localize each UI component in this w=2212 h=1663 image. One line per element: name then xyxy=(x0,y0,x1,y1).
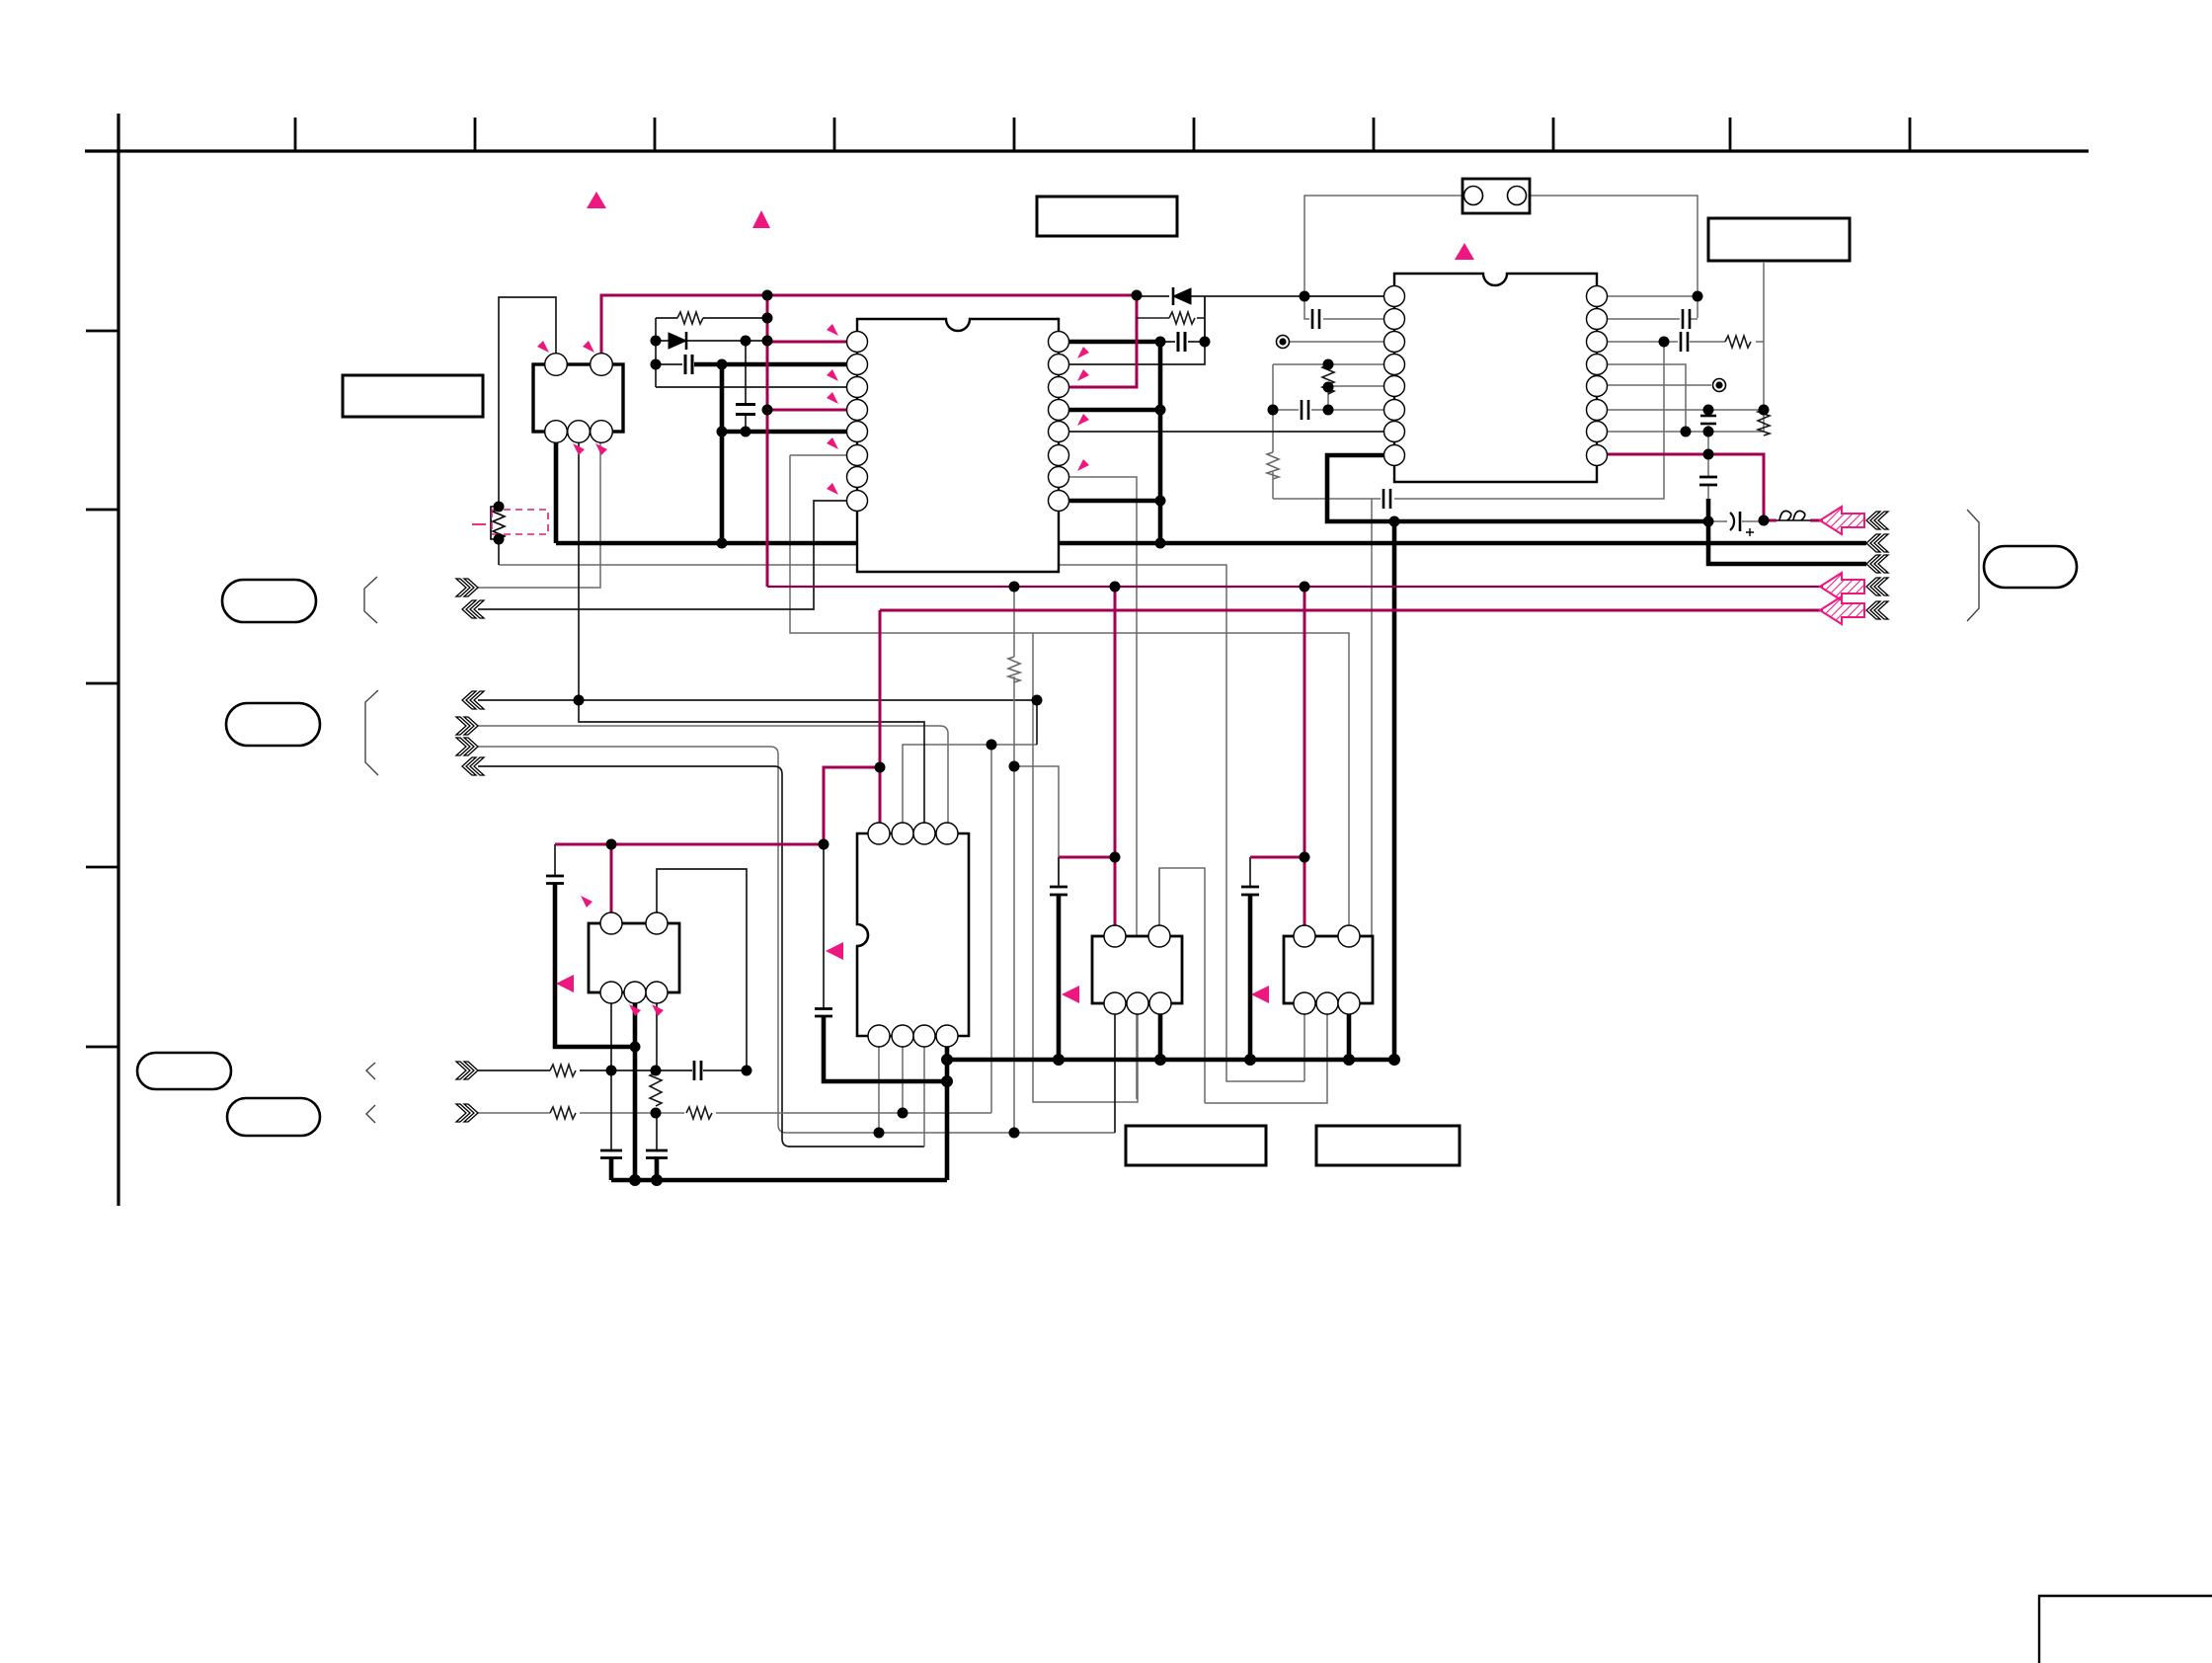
label box (blank) top right xyxy=(1708,218,1850,261)
wire x834 cap to y1095 link xyxy=(824,1016,947,1081)
wire row2 resistor input line xyxy=(478,1112,550,1114)
wire IC201 R5 long line to IC301 L7 xyxy=(1068,431,1384,433)
wire IC301 R5 to test point xyxy=(1607,384,1711,386)
junction node (731,550) xyxy=(717,538,728,549)
wire IC601 B1 drop xyxy=(1114,1014,1116,1133)
wire long loop y=572 from IC1 resistor leg to IC701 net xyxy=(499,565,1327,1103)
capacitor C210 (y346 horizontal) xyxy=(1178,332,1185,352)
title block corner box bottom-right xyxy=(2039,1596,2212,1663)
connector pill right side xyxy=(1984,546,2077,588)
wire IC301 R7 line xyxy=(1607,431,1764,433)
wire IC501 B4 rail xyxy=(945,1047,950,1180)
wire IC301 R4 down link xyxy=(1607,364,1686,432)
junction node (1129,594) xyxy=(1110,582,1121,593)
junction node (1366,1073) xyxy=(1343,1054,1355,1066)
border frame: top horizontal rule xyxy=(85,149,2089,152)
wire IC201 L2 feed xyxy=(694,362,847,367)
wire chevron y617 to IC201 L8 xyxy=(478,501,847,609)
resistor R3 (row1) xyxy=(550,1065,576,1076)
junction node (1072,1073) xyxy=(1053,1054,1065,1066)
wire x1220 link xyxy=(1204,296,1206,342)
wire cap C510 lower to bus xyxy=(1057,895,1062,1060)
wire x1289 chain xyxy=(1272,364,1274,499)
junction node (1730,528) xyxy=(1703,516,1714,527)
capacitor C402 (x834) xyxy=(815,1009,832,1017)
wire bus2 bottom y1073 xyxy=(947,1058,1394,1063)
capacitor C211 (x1289 on R7 line? vertical on x1345) xyxy=(1302,400,1308,420)
resistor R4 (row2) xyxy=(550,1107,576,1119)
wire IC301 L2 cap feed xyxy=(1304,296,1384,319)
junction node (1412,1073) xyxy=(1388,1054,1400,1066)
wire resistor R316 vertical xyxy=(1763,412,1765,432)
wire IC301 R3 cap res chain xyxy=(1664,263,1764,410)
junction node (1345,369) xyxy=(1323,359,1334,370)
connector entry chevron (out) y617 xyxy=(462,600,484,618)
junction node (1786,527) xyxy=(1759,515,1770,526)
wedge IC201 L8 xyxy=(827,483,838,495)
connector entry chevron (in) y735 xyxy=(456,717,478,735)
wire magenta IC301 R8 output xyxy=(1607,454,1764,520)
wire row2 across xyxy=(580,1112,991,1114)
wire IC301 L5 feed xyxy=(1328,385,1384,387)
capacitor C311 (y323 horizontal left of IC301) xyxy=(1312,309,1319,329)
wire magenta stub IC601 cap xyxy=(1059,856,1115,859)
op-amp IC601 body xyxy=(1092,925,1182,1014)
junction node (643,1060) xyxy=(630,1042,641,1053)
magenta marker triangle left of IC401 xyxy=(556,975,574,992)
wire magenta y855 row xyxy=(555,843,824,846)
label box (blank) top middle xyxy=(1037,197,1177,236)
resistor R330 (x1345 vertical) xyxy=(1322,364,1334,394)
wire magenta-A resistor chain to cap C510 xyxy=(1014,587,1059,1133)
wire cap C410 leg to bus3 xyxy=(609,1157,614,1180)
junction node (1220,346) xyxy=(1200,337,1211,348)
op-amp IC701 body xyxy=(1284,925,1373,1014)
capacitor C710 (x1266) xyxy=(1241,887,1259,895)
connector exit chevron y527 xyxy=(1866,512,1888,529)
junction node (1786,415) xyxy=(1759,405,1770,416)
bracket right side xyxy=(1967,510,1979,621)
wire cap C317 chain xyxy=(1707,454,1709,499)
junction node (1730,437) xyxy=(1703,427,1714,437)
wire IC501 B1 drop xyxy=(878,1047,880,1133)
wire IC601 B2 drop xyxy=(1033,633,1138,1102)
wire magenta drop to IC201 R3 xyxy=(1068,295,1137,387)
junction node (1412,528) xyxy=(1389,516,1400,527)
wire IC701 B1 drop xyxy=(1303,1014,1305,1081)
wire bus GND y550 xyxy=(556,541,1866,546)
magenta marker triangle top left xyxy=(587,192,606,208)
wire IC301 L4 feed xyxy=(1273,363,1384,365)
junction node (755,437) xyxy=(741,427,751,437)
bracket small row2 xyxy=(366,1105,375,1123)
wedge IC401 B3 xyxy=(652,1004,664,1016)
op-amp IC401 body xyxy=(589,912,679,1003)
junction node (505,513) xyxy=(494,502,505,513)
inductor L1 coil xyxy=(1779,511,1805,520)
wire IC201 L6 stub xyxy=(790,454,847,456)
wire IC601 x1072 cap top xyxy=(1058,857,1060,886)
wire bracket resistor lower leg xyxy=(498,539,500,565)
wire IC201 R7 drop rail xyxy=(1068,477,1137,1099)
junction node (1719,300) xyxy=(1693,291,1703,302)
junction node (834,855) xyxy=(819,839,829,850)
wire IC1 T1 loop xyxy=(499,297,556,507)
wire x1412 drop rail xyxy=(1392,521,1397,1060)
wire IC301 L8 U-link xyxy=(1327,455,1708,521)
resistor R6 (x664 vertical) xyxy=(650,1072,662,1106)
test point TP2 bulls-eye xyxy=(1713,379,1726,392)
wire cap C316 vertical link xyxy=(1707,410,1709,454)
wire magenta IC201 L4 feed xyxy=(767,409,847,412)
junction node (1151,299) xyxy=(1132,290,1143,301)
wedge IC201 R2 xyxy=(1077,347,1089,358)
magenta marker triangle above IC301 xyxy=(1455,243,1474,260)
wire magenta to coil L1 xyxy=(1764,519,1823,522)
wire y505 loop cap C320 xyxy=(1273,342,1664,499)
wire resistor R330 vertical link xyxy=(1327,387,1329,410)
junction node (755,345) xyxy=(741,336,751,347)
junction node (1730,415) xyxy=(1703,405,1714,416)
resistor R1 (y322 horizontal) xyxy=(677,312,703,324)
wire IC601 T2 loop up xyxy=(1158,868,1160,936)
resistor R5 (row2 mid) xyxy=(686,1107,712,1119)
resistor R316 (x1786 vertical) xyxy=(1758,410,1770,436)
resistor R312 (y346 right) xyxy=(1725,336,1751,348)
junction node (1345,392) xyxy=(1323,382,1334,393)
connector entry chevron (out) y709 xyxy=(462,691,484,709)
wedge IC401 T1 xyxy=(581,896,592,908)
wire chevron in y=756 to IC501 B1 / IC601 B1 rail xyxy=(478,747,1115,1133)
junction node (619,1084) xyxy=(606,1066,617,1076)
wire connector CN2 left lead xyxy=(1304,196,1462,296)
capacitor C2 (x755 vertical) xyxy=(736,405,755,415)
junction node (1129,868) xyxy=(1110,852,1121,863)
junction node (777,345) xyxy=(762,336,773,347)
junction node (777,415) xyxy=(762,405,773,416)
wire IC401 B2 drop xyxy=(633,1003,638,1180)
wedge IC201 R7 xyxy=(1077,459,1089,471)
tick marks left edge xyxy=(86,331,118,1047)
wire resistor R210 row xyxy=(1137,317,1169,319)
wire IC301 L6 feed xyxy=(1273,409,1384,411)
resistor R331 (x1289 vertical) xyxy=(1267,452,1279,479)
connector pill CN? upper left xyxy=(222,580,316,622)
junction node (1289,415) xyxy=(1268,405,1279,416)
connector pill CN? lower left A xyxy=(137,1053,231,1089)
junction node (731,369) xyxy=(717,359,728,370)
junction node (1175,415) xyxy=(1155,405,1166,416)
connector entry chevron (in) y756 xyxy=(456,738,478,755)
wire magenta rail x777 xyxy=(766,295,769,587)
wedge IC201 L1 xyxy=(827,324,838,336)
capacitor C401 (x562) xyxy=(546,876,564,884)
wire test point TP1 to IC301 L3 xyxy=(1290,341,1384,343)
wire resistor R1 row y322 xyxy=(656,317,767,319)
junction node (664,369) xyxy=(651,359,662,370)
wire IC301 R6 line xyxy=(1607,409,1764,411)
wire IC701 B3 drop xyxy=(1347,1014,1352,1060)
junction node (1175,1073) xyxy=(1154,1054,1166,1066)
test point TP1 bulls-eye xyxy=(1277,336,1290,349)
wire x665 link xyxy=(655,318,657,387)
resistor R510 (x1027 vertical) xyxy=(1008,657,1020,682)
junction node (1175,550) xyxy=(1155,538,1166,549)
wire IC601 B3 drop xyxy=(1158,1014,1163,1060)
wire magenta drop IC701 T1 xyxy=(1303,587,1306,925)
junction node (1707,437) xyxy=(1681,427,1692,437)
capacitor C315 (y323 horizontal right) xyxy=(1683,309,1690,329)
wire x1730 output leg xyxy=(1708,499,1866,564)
junction node (664,345) xyxy=(651,336,662,347)
wire IC401 B1 drop chain xyxy=(610,1003,612,1149)
wire x562 cap chain xyxy=(554,844,556,875)
wire x834 chain below magenta xyxy=(823,844,825,1008)
wedge IC1 T1 xyxy=(537,341,549,353)
junction node (1027,776) xyxy=(1009,761,1020,772)
IC501 body (tall driver) xyxy=(857,823,969,1047)
wire magenta drop IC601 T1 xyxy=(1114,587,1117,925)
wire IC201 L5 feed xyxy=(722,430,847,435)
wire cap C315 to vertical xyxy=(1691,318,1698,320)
wire cap C1 left lead xyxy=(656,363,682,365)
junction node (1027,1147) xyxy=(1009,1128,1020,1139)
wire IC301 R1 to node xyxy=(1607,295,1698,297)
junction node (1266,1073) xyxy=(1244,1054,1256,1066)
magenta marker triangle left of IC601 xyxy=(1062,986,1079,1003)
wire x1220 drop to IC201 R2 xyxy=(1068,296,1205,364)
wire IC401 T2 loop to row1 xyxy=(657,869,747,1070)
wire IC701 B2 stub up xyxy=(1360,499,1372,1003)
wedge IC1 T2 xyxy=(583,341,594,353)
junction node (1321,300) xyxy=(1300,291,1310,302)
junction node (959,1095) xyxy=(941,1075,953,1087)
wire magenta B drop chain to IC501 T1 xyxy=(879,610,882,823)
connector pill CN? mid left xyxy=(226,703,320,746)
capacitor C320 (y505 horizontal) xyxy=(1383,489,1390,509)
wire magenta IC201 L1 feed xyxy=(767,341,847,344)
wire cap C710 lower to bus xyxy=(1248,895,1253,1060)
junction node (914,1127) xyxy=(898,1108,908,1119)
hatched arrow out 3 xyxy=(1820,596,1864,624)
wire diode D2 row y300 xyxy=(1137,295,1394,297)
junction node (1175,507) xyxy=(1155,496,1166,507)
wire row2 right leg up to y754 xyxy=(990,745,992,1113)
wire diode D1 row y345 xyxy=(656,340,767,342)
wire chevron y709 rail xyxy=(478,700,1037,745)
wedge IC201 L4 xyxy=(827,392,838,404)
bracket small row1 xyxy=(366,1063,375,1079)
junction node (1321,594) xyxy=(1300,582,1310,593)
junction node (643,1195) xyxy=(629,1174,641,1186)
junction node (1345,415) xyxy=(1323,405,1334,416)
junction node (756,1084) xyxy=(742,1066,752,1076)
wire IC301 L1 feed xyxy=(1304,295,1384,297)
wire bus3 y1195 xyxy=(611,1178,947,1183)
connector exit chevron y550 xyxy=(1866,534,1888,552)
bracket left of chevrons group 2 xyxy=(365,690,378,775)
junction node (1004,754) xyxy=(987,740,997,751)
capacitor C312 (y346 right) xyxy=(1681,332,1688,352)
junction node (1175,346) xyxy=(1155,337,1166,348)
tick marks top edge xyxy=(295,118,1910,151)
wedge IC401 B2 xyxy=(629,1004,641,1016)
wire IC501 B3 drop xyxy=(923,1047,925,1147)
junction node (959,1073) xyxy=(941,1054,953,1066)
connector CN2 (2-pin header top right) xyxy=(1462,179,1530,213)
wire IC201 R1 to cap node xyxy=(1068,340,1160,345)
junction node (1321,868) xyxy=(1300,852,1310,863)
label box (blank) near IC1 xyxy=(343,375,483,417)
wedge IC1 B2 xyxy=(573,443,585,455)
wire magenta stub IC701 cap xyxy=(1250,856,1304,859)
diode D2 (y300 pointing left) xyxy=(1173,287,1191,305)
junction node (665,1195) xyxy=(651,1174,663,1186)
wire IC1 B1 drop xyxy=(554,442,559,543)
wire magenta drop IC401 T1 xyxy=(610,844,613,912)
connector entry chevron (in) y595 xyxy=(456,579,478,596)
wire x1175 rail xyxy=(1158,342,1163,543)
connector exit chevron y618 xyxy=(1866,601,1888,619)
junction node (777,322) xyxy=(762,313,773,324)
diode D1 (y345 pointing right) xyxy=(669,332,690,350)
junction node (1685,346) xyxy=(1659,337,1670,348)
capacitor C411 (x665) xyxy=(646,1150,668,1158)
capacitor C510 (x1072) xyxy=(1050,887,1067,895)
wire magenta link to x834 xyxy=(824,767,880,844)
capacitor C3 (row1 horizontal) xyxy=(694,1061,701,1080)
wire IC701 x1266 cap top xyxy=(1249,857,1251,886)
IC201 body (central DSP) xyxy=(847,319,1069,572)
wire IC301 R3 to node xyxy=(1607,341,1664,343)
wire chevron in y=735 to IC501 T4 xyxy=(478,726,948,823)
wedge IC201 L3 xyxy=(827,369,838,381)
wire magenta top feed from IC1 T2 xyxy=(601,295,1137,355)
connector entry chevron (out) y776 xyxy=(462,757,484,775)
junction node (891,777) xyxy=(875,762,886,773)
connector entry chevron (in) y1084 xyxy=(456,1062,478,1079)
label box (blank) bottom left of pair xyxy=(1126,1126,1266,1165)
junction node (890,1147) xyxy=(874,1128,885,1139)
magenta marker triangle left of IC701 xyxy=(1251,986,1269,1003)
wire IC201 R4 stub xyxy=(1068,408,1160,413)
wire x731 rail xyxy=(720,364,725,543)
wedge IC1 B3 xyxy=(595,443,607,455)
capacitor C410 (x619) xyxy=(600,1150,622,1158)
wire IC201 L3 feed xyxy=(656,386,847,388)
junction node (731,437) xyxy=(717,427,728,437)
wire IC201 R8 stub xyxy=(1068,499,1160,504)
wire IC301 R2 to cap C315 xyxy=(1607,318,1680,320)
wedge IC201 R3 xyxy=(1077,369,1089,381)
wedge IC201 L6 xyxy=(827,437,838,449)
wire IC1 B2 drop to y731 IC501 T3 xyxy=(579,442,924,823)
wire electrolytic C318 row xyxy=(1708,520,1764,522)
bracket left of chevrons group 1 xyxy=(364,577,377,623)
junction node (1050,709) xyxy=(1032,695,1043,706)
wedge IC201 R5 xyxy=(1077,414,1089,426)
wire chevron in y=595 to IC1 B3 xyxy=(478,442,600,588)
border frame: left vertical rule xyxy=(117,114,119,1206)
wire cap C411 leg to bus3 xyxy=(655,1157,660,1180)
wire magenta bus B y618 xyxy=(880,609,1823,612)
wire y641 rail IC201 L6 to IC701 T2 xyxy=(790,455,1349,925)
wire cap C2 chain x755 xyxy=(745,341,747,432)
capacitor C1 (y369 horizontal) xyxy=(685,355,692,374)
capacitor C316 (x1730 vertical small) xyxy=(1700,416,1716,424)
resistor R210 (y322 right of IC201) xyxy=(1169,312,1195,324)
junction node (619,855) xyxy=(606,839,617,850)
junction node (1730,460) xyxy=(1703,449,1714,460)
wire cap C210 row y346 xyxy=(1160,341,1205,343)
connector pill CN? lower left B xyxy=(227,1098,320,1136)
wire y754 IC501 T2 xyxy=(903,745,1037,823)
label box (blank) bottom right of pair xyxy=(1316,1126,1460,1165)
wire row1 across xyxy=(580,1069,747,1071)
junction node (664,1084) xyxy=(651,1066,662,1076)
wire row1 input xyxy=(478,1069,550,1071)
IC301 body (right audio IC) xyxy=(1384,274,1608,482)
wire x562 cap to y1060 link xyxy=(555,883,635,1047)
wire resistor R6 vertical between rows xyxy=(655,1070,657,1113)
hatched arrow out 2 xyxy=(1820,573,1864,600)
electrolytic capacitor C318 xyxy=(1730,512,1754,536)
wire chevron in y=776 to IC501 B3 rail xyxy=(478,766,924,1147)
connector entry chevron (in) y1127 xyxy=(456,1104,478,1122)
op-amp IC1 body xyxy=(533,354,623,443)
capacitor C317 (x1730 vertical) xyxy=(1699,477,1717,485)
junction node (586,709) xyxy=(574,695,585,706)
magenta marker triangle left of IC501 xyxy=(826,942,843,960)
bracket resistor R2 with dashed select box xyxy=(472,507,548,539)
junction node (505,546) xyxy=(494,534,505,545)
junction node (1027,594) xyxy=(1009,582,1020,593)
magenta marker triangle top mid xyxy=(752,210,770,228)
hatched arrow out 1 xyxy=(1820,507,1864,534)
wire connector CN2 right lead down to C pin2 xyxy=(1530,196,1698,318)
wire IC401 B3 drop chain xyxy=(656,1003,658,1149)
junction node (664,1127) xyxy=(651,1108,662,1119)
junction node (777,299) xyxy=(762,290,773,301)
wire IC501 B2 drop to row2 xyxy=(902,1047,904,1113)
connector exit chevron y571 xyxy=(1866,555,1888,573)
connector exit chevron y594 xyxy=(1866,578,1888,595)
